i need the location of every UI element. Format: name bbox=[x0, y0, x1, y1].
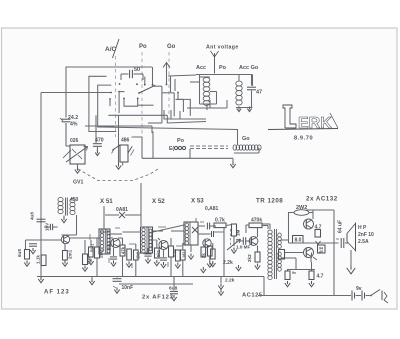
wire bbox=[199, 75, 201, 105]
coil Go bbox=[233, 145, 261, 150]
svg-text:50: 50 bbox=[134, 67, 140, 73]
switch on-off bbox=[370, 290, 388, 304]
label AC125 bbox=[242, 293, 263, 299]
tuning cap Po bbox=[169, 138, 186, 152]
label Ant voltage bbox=[206, 45, 239, 51]
resistor 2.2k b bbox=[247, 246, 260, 263]
contact b bbox=[118, 91, 124, 113]
resistor bbox=[175, 250, 180, 268]
cap 4u8 bbox=[30, 212, 46, 222]
wire sec bot bbox=[281, 257, 296, 259]
cap 47 bbox=[247, 75, 262, 108]
wire bbox=[85, 126, 152, 133]
wire bbox=[65, 123, 67, 142]
resistor bbox=[285, 270, 296, 287]
wire tank2 bbox=[236, 107, 253, 109]
contact c bbox=[144, 77, 146, 86]
resistor det2 bbox=[207, 246, 212, 267]
wire bbox=[187, 107, 227, 109]
wire sec top bbox=[281, 212, 289, 243]
wire bbox=[122, 162, 124, 166]
label X 51 bbox=[100, 198, 113, 205]
wire osc feed bbox=[118, 115, 120, 163]
wire bbox=[189, 149, 191, 159]
svg-text:10nF: 10nF bbox=[122, 285, 134, 291]
svg-text:ERK: ERK bbox=[298, 115, 332, 132]
wire stage1 top bbox=[41, 231, 110, 233]
cap 10nF bbox=[113, 277, 134, 294]
cap 24.2 bbox=[60, 115, 78, 128]
feedback 8.0 bbox=[293, 236, 304, 244]
wire top bbox=[66, 66, 153, 68]
wire bbox=[234, 148, 259, 153]
wire bbox=[311, 253, 313, 259]
tick marks 2 bbox=[109, 258, 168, 268]
transistor Q3 bbox=[159, 240, 168, 249]
dash line Po bbox=[141, 52, 143, 140]
logo LERK bbox=[268, 105, 338, 132]
svg-text:2x AF123: 2x AF123 bbox=[142, 295, 174, 301]
svg-text:0,A81: 0,A81 bbox=[205, 206, 219, 212]
svg-text:2.5A: 2.5A bbox=[358, 239, 369, 245]
wire bbox=[103, 215, 105, 229]
wire bracket right bbox=[132, 132, 154, 159]
IFT2 box bbox=[99, 229, 110, 254]
label Po bbox=[139, 44, 147, 50]
switch bar3 bbox=[108, 115, 206, 123]
IFT1 winding B bbox=[70, 199, 75, 215]
wire bbox=[350, 250, 352, 266]
svg-text:1k2: 1k2 bbox=[136, 251, 141, 259]
wire top rail bbox=[306, 210, 334, 296]
ground bbox=[116, 164, 121, 170]
antenna bbox=[211, 51, 219, 74]
svg-text:026: 026 bbox=[70, 138, 79, 144]
small label a bbox=[90, 243, 95, 252]
wire bbox=[63, 216, 65, 218]
resistor 2M1 bbox=[95, 247, 104, 258]
label TR 1208 bbox=[256, 198, 283, 205]
resistor col b bbox=[134, 244, 139, 277]
wire mid out bbox=[289, 242, 339, 244]
svg-text:4.7: 4.7 bbox=[317, 274, 324, 280]
ground bbox=[24, 261, 29, 267]
transistor Q1 bbox=[61, 235, 69, 243]
svg-text:486: 486 bbox=[121, 138, 130, 144]
ground big bbox=[347, 266, 355, 274]
svg-text:0A81: 0A81 bbox=[116, 207, 128, 213]
resistor col f bbox=[210, 243, 215, 267]
label 0A81 bbox=[116, 207, 128, 213]
wire vertical x141 bbox=[140, 183, 142, 215]
switch C1R bbox=[148, 86, 162, 123]
switch lever bbox=[138, 85, 155, 94]
resistor base2 bbox=[279, 250, 285, 260]
label 10V cap bbox=[44, 222, 58, 231]
ground bbox=[247, 107, 251, 112]
contact d bbox=[177, 92, 190, 116]
svg-text:6u8: 6u8 bbox=[169, 286, 178, 292]
svg-text:4-40: 4-40 bbox=[172, 248, 177, 257]
svg-text:8.9.70: 8.9.70 bbox=[294, 136, 313, 142]
resistor bbox=[120, 238, 125, 277]
svg-text:6u8: 6u8 bbox=[17, 249, 22, 257]
resistor 1k1 bbox=[36, 255, 47, 266]
transistor Q2 bbox=[111, 238, 120, 247]
resistor 6u8 bbox=[17, 240, 30, 259]
wire bbox=[250, 228, 258, 245]
svg-text:Go: Go bbox=[242, 136, 250, 142]
resistor bbox=[126, 249, 131, 267]
wire stage tops bbox=[110, 231, 184, 234]
wire left vertical bbox=[65, 67, 67, 118]
coil L1a bbox=[203, 78, 210, 92]
dashed boundary bbox=[78, 169, 158, 181]
wire agc top bbox=[140, 213, 142, 226]
resistor 90k bbox=[83, 254, 92, 265]
cap 64uF bbox=[336, 220, 348, 248]
ground bbox=[255, 264, 260, 270]
svg-text:Po: Po bbox=[177, 138, 185, 144]
resistor 0.7k bbox=[214, 218, 226, 228]
svg-text:Acc Go: Acc Go bbox=[239, 65, 259, 71]
svg-text:9v: 9v bbox=[356, 286, 362, 292]
diode det bbox=[192, 227, 198, 233]
svg-text:2m1: 2m1 bbox=[68, 249, 73, 259]
label 450 bbox=[70, 197, 79, 203]
wire bbox=[96, 238, 98, 277]
label Acc Po bbox=[196, 65, 227, 71]
svg-text:2.2k: 2.2k bbox=[225, 278, 235, 284]
wire long2 bbox=[142, 157, 233, 159]
speaker HP bbox=[347, 223, 356, 252]
svg-text:1.0 MF: 1.0 MF bbox=[236, 245, 250, 250]
cap bbox=[110, 248, 117, 266]
cap bbox=[160, 250, 167, 268]
resistor 2m1 bbox=[63, 244, 73, 261]
label 5k1 bbox=[156, 249, 161, 257]
label X 52 bbox=[152, 198, 165, 205]
coil L1b bbox=[203, 92, 210, 106]
wire bbox=[289, 212, 314, 214]
label HP bbox=[358, 225, 374, 245]
label 1k2 bbox=[136, 251, 141, 259]
label Go bbox=[167, 44, 176, 50]
IFT3 box bbox=[141, 227, 153, 253]
thermistor bbox=[318, 245, 326, 254]
resistor col d bbox=[181, 243, 186, 277]
svg-text:Ant voltage: Ant voltage bbox=[206, 45, 239, 51]
battery cell2 bbox=[362, 291, 370, 301]
bus lower mid bbox=[119, 283, 193, 285]
wire long bbox=[100, 127, 238, 145]
svg-text:H P: H P bbox=[358, 225, 367, 231]
label Go 2 bbox=[242, 136, 250, 142]
svg-text:470: 470 bbox=[95, 138, 104, 144]
small marks bbox=[115, 222, 204, 228]
tick marks bbox=[90, 234, 183, 246]
contact U bbox=[123, 98, 139, 107]
switch bar mid bbox=[138, 104, 154, 106]
svg-text:E(: E( bbox=[169, 146, 174, 152]
svg-text:GV1: GV1 bbox=[73, 180, 83, 186]
svg-text:64 uF: 64 uF bbox=[338, 220, 344, 233]
resistor bbox=[201, 247, 206, 273]
small label d bbox=[201, 253, 206, 258]
osc coil box bbox=[70, 145, 85, 164]
ground bbox=[231, 236, 236, 253]
wire bbox=[262, 224, 270, 229]
cap 470 bbox=[93, 138, 104, 147]
switch C2 bbox=[98, 85, 115, 127]
svg-text:2x AC132: 2x AC132 bbox=[306, 196, 338, 203]
bus upper bbox=[37, 276, 264, 278]
small label b bbox=[107, 243, 112, 251]
resistor 470k bbox=[249, 218, 262, 228]
svg-text:4u8: 4u8 bbox=[30, 212, 35, 220]
label 0A81 2 bbox=[205, 206, 219, 212]
svg-text:9v: 9v bbox=[292, 271, 296, 275]
AGC label bbox=[121, 138, 130, 144]
label X 53 bbox=[191, 198, 204, 205]
pot 2.2k bbox=[223, 239, 240, 266]
wire bbox=[153, 225, 184, 240]
tuning cap plates bbox=[190, 146, 228, 149]
node circle bbox=[163, 63, 170, 86]
svg-text:AF 123: AF 123 bbox=[44, 290, 70, 296]
resistor 4.7 b bbox=[310, 258, 312, 262]
resistor col a bbox=[88, 240, 93, 265]
svg-text:47k: 47k bbox=[121, 246, 126, 254]
svg-text:24.2: 24.2 bbox=[68, 115, 78, 121]
svg-text:5k1: 5k1 bbox=[156, 249, 161, 257]
cap bbox=[29, 244, 37, 254]
dash line A/C bbox=[115, 56, 117, 137]
wire bbox=[226, 225, 232, 226]
wire bbox=[198, 223, 216, 230]
cap 1.0MF bbox=[236, 237, 250, 249]
ground bbox=[75, 168, 80, 174]
svg-text:2.2k: 2.2k bbox=[223, 260, 233, 266]
diode 0A81 bbox=[104, 206, 141, 218]
det transformer bbox=[184, 222, 198, 245]
cap 50 bbox=[121, 67, 143, 80]
wire bbox=[246, 225, 268, 233]
ground bbox=[89, 277, 94, 285]
bus lower right bbox=[258, 295, 348, 297]
cap 6u8 bbox=[169, 277, 178, 301]
wire switch top right bbox=[152, 67, 154, 86]
ground bbox=[62, 261, 67, 267]
wire bbox=[95, 147, 99, 156]
IFT1 core bbox=[66, 198, 68, 216]
ground bbox=[230, 159, 235, 168]
wire base2 bbox=[285, 252, 303, 254]
pot wire bbox=[218, 277, 234, 296]
svg-text:Po: Po bbox=[139, 44, 147, 50]
svg-text:4n5: 4n5 bbox=[107, 243, 112, 251]
switch C2R bbox=[162, 93, 174, 117]
wire bbox=[190, 81, 200, 83]
ground bbox=[237, 107, 241, 112]
AGC box bbox=[112, 145, 135, 162]
svg-text:X 51: X 51 bbox=[100, 198, 113, 205]
wire bbox=[82, 240, 87, 271]
transistor Q4 bbox=[203, 239, 211, 247]
coil L2 bbox=[236, 75, 242, 106]
resistor 1M bbox=[232, 224, 241, 236]
resistor 2W2 bbox=[294, 205, 309, 215]
svg-text:1.1k: 1.1k bbox=[36, 255, 41, 264]
wire tank1 bbox=[200, 77, 217, 110]
wire bbox=[95, 115, 97, 143]
wire bbox=[66, 123, 78, 168]
label 2x AC132 bbox=[306, 196, 338, 203]
wire bbox=[174, 79, 176, 91]
label 2x AF123 bbox=[142, 295, 174, 301]
svg-text:2nF 10: 2nF 10 bbox=[358, 232, 374, 238]
resistor bbox=[169, 238, 174, 277]
ground bbox=[61, 217, 66, 223]
svg-text:47: 47 bbox=[256, 90, 262, 96]
label GV1 bbox=[73, 180, 83, 186]
wire acc bbox=[168, 75, 253, 87]
resistor bbox=[309, 262, 324, 287]
bus left vertical bbox=[40, 93, 42, 278]
transistor Q6 bbox=[304, 219, 314, 229]
pot dash bbox=[230, 229, 232, 248]
svg-text:X 52: X 52 bbox=[152, 198, 165, 205]
bracket bbox=[164, 110, 206, 119]
date 8.9.70 bbox=[294, 136, 313, 142]
svg-text:Go: Go bbox=[167, 44, 176, 50]
label A/C bbox=[105, 39, 119, 58]
ground bbox=[38, 277, 43, 283]
IFT1 winding A bbox=[58, 198, 63, 214]
wire bbox=[312, 210, 314, 219]
svg-text:4%: 4% bbox=[70, 122, 78, 128]
svg-text:45: 45 bbox=[319, 250, 323, 254]
small label c bbox=[172, 248, 177, 257]
svg-text:TR 1208: TR 1208 bbox=[256, 198, 283, 205]
switch C1 bbox=[89, 76, 116, 131]
label Acc Go bbox=[239, 65, 259, 71]
svg-text:X 53: X 53 bbox=[191, 198, 204, 205]
wire bbox=[287, 257, 317, 270]
svg-text:10V: 10V bbox=[45, 222, 50, 231]
transistor Q5 bbox=[249, 237, 258, 246]
osc arrow bbox=[63, 147, 88, 163]
driver transformer bbox=[268, 229, 282, 280]
ground bbox=[236, 265, 241, 271]
svg-text:161: 161 bbox=[182, 250, 187, 258]
battery 9v bbox=[348, 286, 362, 301]
wire bus join bbox=[263, 277, 265, 296]
wire bbox=[210, 100, 227, 108]
label 47k bbox=[121, 246, 126, 254]
resistor 4.7 a bbox=[315, 225, 322, 245]
wire bbox=[110, 232, 141, 238]
cap det bbox=[198, 231, 214, 237]
wire det bbox=[188, 245, 193, 259]
svg-text:Po: Po bbox=[219, 65, 227, 71]
wire base bbox=[26, 239, 62, 241]
svg-text:1M: 1M bbox=[236, 229, 241, 236]
transistor Q7 bbox=[304, 248, 314, 258]
dash line Go bbox=[168, 52, 170, 118]
wire bbox=[170, 76, 172, 93]
label AF 123 bbox=[44, 290, 70, 296]
switch C3R bbox=[176, 99, 184, 112]
cap col e bbox=[144, 248, 151, 263]
contact a bbox=[109, 98, 111, 106]
svg-text:5%1: 5%1 bbox=[90, 243, 95, 252]
wire collector bbox=[70, 237, 100, 239]
svg-text:2k: 2k bbox=[201, 253, 206, 258]
label 026 bbox=[70, 138, 79, 144]
resistor col c bbox=[154, 240, 159, 266]
wire supply bbox=[223, 228, 225, 277]
contact cap drops bbox=[119, 83, 138, 85]
wire bbox=[62, 215, 77, 235]
label 161 bbox=[182, 250, 187, 258]
wire extra bbox=[196, 218, 224, 232]
svg-text:2k2: 2k2 bbox=[247, 254, 252, 262]
wire y92 bbox=[41, 92, 112, 94]
svg-text:Acc: Acc bbox=[196, 65, 206, 71]
